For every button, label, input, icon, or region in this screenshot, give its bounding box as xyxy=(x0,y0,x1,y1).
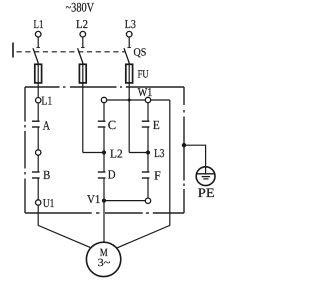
svg-text:L2: L2 xyxy=(110,147,123,161)
terminal U1 xyxy=(36,178,55,210)
link A xyxy=(32,121,40,127)
terminal W1 stud xyxy=(138,85,153,103)
node L2 (incoming phase) xyxy=(76,17,88,37)
link E xyxy=(142,121,150,127)
fuse FU3 xyxy=(126,63,133,153)
link B xyxy=(32,172,40,178)
svg-text:FU: FU xyxy=(138,68,149,80)
switch QS linkage dashed line xyxy=(13,43,126,58)
svg-text:F: F xyxy=(154,168,161,182)
svg-text:V1: V1 xyxy=(87,192,100,206)
wire column 3 lower xyxy=(147,153,149,173)
node L3 junction xyxy=(146,127,165,160)
motor M xyxy=(86,242,120,276)
wire column 3 upper xyxy=(147,103,149,122)
svg-text:3~: 3~ xyxy=(98,257,111,269)
svg-text:U1: U1 xyxy=(43,196,55,210)
svg-text:A: A xyxy=(43,118,50,132)
svg-text:PE: PE xyxy=(198,185,215,200)
node L1 (incoming phase) xyxy=(34,17,44,37)
link C xyxy=(98,121,106,127)
svg-text:B: B xyxy=(43,168,50,182)
terminal middle-left stud xyxy=(36,150,41,155)
wire U1 lead to motor xyxy=(38,205,91,248)
motor enclosure dash-dot box top edge xyxy=(25,86,184,88)
svg-text:W1: W1 xyxy=(138,85,153,99)
motor enclosure dash-dot box left edge xyxy=(24,87,26,213)
svg-text:E: E xyxy=(153,118,160,132)
svg-text:L3: L3 xyxy=(154,146,164,160)
svg-text:L2: L2 xyxy=(76,17,88,31)
svg-text:L1: L1 xyxy=(41,93,52,107)
motor enclosure dash-dot box right edge xyxy=(183,87,185,213)
link F xyxy=(142,172,150,178)
wire column 2 lower xyxy=(103,153,105,173)
wire L3 jog to node xyxy=(129,152,146,154)
fuse FU2 xyxy=(79,63,86,153)
wire column 1 upper xyxy=(37,103,39,121)
svg-text:~380V: ~380V xyxy=(66,0,95,15)
switch QS pole 3 xyxy=(124,37,131,64)
PE earth branch xyxy=(182,143,206,174)
wire column 2 upper xyxy=(103,103,105,122)
wire column 1 lower xyxy=(37,155,39,172)
wire W1 row horizontal xyxy=(104,99,170,101)
svg-text:D: D xyxy=(108,167,116,181)
terminal top middle stud xyxy=(101,97,106,102)
wire column 1 middle xyxy=(37,127,39,150)
terminal L1 (top left stud) xyxy=(36,93,53,107)
svg-text:L3: L3 xyxy=(125,17,136,31)
node V1 junction xyxy=(87,178,145,242)
terminal bottom right stud xyxy=(145,178,150,204)
switch QS pole 1 xyxy=(33,37,40,64)
wire L2 jog to node xyxy=(83,152,102,154)
fuse FU1 xyxy=(35,63,42,98)
wire right drop to motor xyxy=(116,100,170,248)
svg-text:L1: L1 xyxy=(34,17,44,31)
node L2 junction xyxy=(102,127,123,161)
svg-text:QS: QS xyxy=(134,47,147,59)
link D xyxy=(98,172,106,178)
svg-text:C: C xyxy=(108,118,116,132)
PE earth symbol xyxy=(196,167,215,186)
junction crossing L3/W1 xyxy=(128,99,131,102)
switch QS pole 2 xyxy=(78,37,85,64)
node L3 (incoming phase) xyxy=(125,17,136,37)
motor enclosure dash-dot box bottom edge xyxy=(25,212,184,214)
